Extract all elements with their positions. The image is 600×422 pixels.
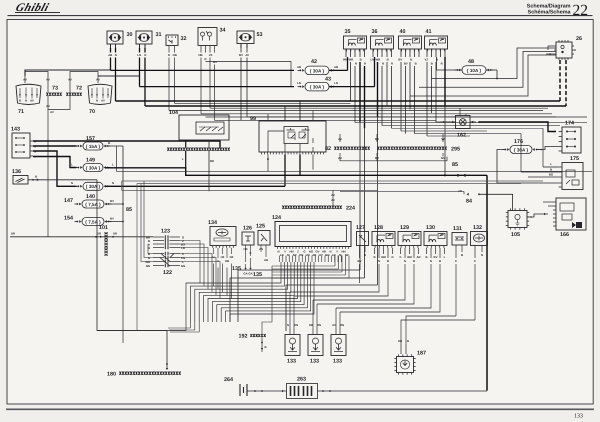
wire horn30 to fuse42 [111,69,295,71]
relay 35 [344,36,367,49]
wire 82 drops [339,134,341,141]
svg-text:VZ: VZ [425,58,429,62]
svg-text:192: 192 [239,334,248,340]
svg-text:HV: HV [319,253,323,257]
svg-text:B: B [387,58,389,62]
svg-text:R: R [364,62,366,66]
svg-text:101: 101 [99,225,108,231]
lamp 133 a [285,335,300,356]
svg-text:166: 166 [560,232,569,238]
svg-text:B: B [439,259,441,263]
svg-text:VZ: VZ [209,53,213,57]
fuse 157 [83,142,103,150]
svg-text:71: 71 [18,109,24,115]
connector 175 [562,163,583,190]
svg-text:AV: AV [30,99,34,103]
relay pin wires 35 [345,49,347,57]
svg-text:AV: AV [331,193,335,197]
wire 136 B [28,179,97,181]
fuse 48 [462,66,486,75]
wire relay drops to fan [238,270,360,322]
Ghibli logo [14,2,51,14]
svg-text:187: 187 [417,351,426,357]
wire 104 pins [185,140,187,148]
svg-text:WR: WR [375,58,380,62]
fuse 43 [305,82,329,91]
wire 128 drops [374,248,376,254]
svg-text:{ 7,5A }: { 7,5A } [85,202,101,207]
wire 180 feed [166,363,168,365]
horn 31 [136,31,152,44]
switch 131 [452,233,467,246]
svg-text:30: 30 [414,37,418,41]
svg-text:C: C [399,255,401,259]
horn 53 [237,31,254,44]
svg-text:N: N [355,62,357,66]
fuse 149 [83,164,103,172]
svg-text:30: 30 [386,37,390,41]
control unit 104 [179,115,229,140]
lamp 133 c [331,335,346,356]
svg-text:B: B [108,141,110,145]
svg-text:143: 143 [11,127,20,133]
wire 71 to 73 arc [25,72,48,93]
svg-text:B: B [387,259,389,263]
svg-text:L: L [112,163,114,167]
strip 72 [66,93,81,96]
svg-text:82: 82 [325,146,331,152]
amplifier 105 [508,211,527,228]
svg-text:147: 147 [64,198,73,204]
svg-text:R: R [204,57,206,61]
svg-text:BN: BN [146,264,150,268]
svg-text:B: B [267,157,269,161]
svg-text:140: 140 [86,194,95,200]
wire fan to bottom left [97,322,186,331]
svg-text:LB: LB [181,246,185,250]
wire 162 right lead thick [470,121,476,123]
strip 82 295 pin stubs [339,139,341,142]
svg-text:LN: LN [334,81,338,85]
svg-text:84: 84 [466,199,472,205]
svg-text:BV: BV [110,217,114,221]
svg-text:L: L [444,255,446,259]
wire 263 out right [318,390,488,392]
svg-text:127: 127 [356,225,365,231]
svg-text:72: 72 [76,86,82,92]
svg-text:NB: NB [173,53,177,57]
svg-text:AV: AV [46,78,50,82]
svg-text:135: 135 [232,266,241,272]
svg-text:R: R [168,53,170,57]
wire 73 to 72 lower link [48,96,70,110]
sender 126 [242,232,254,245]
svg-text:GA: GA [248,272,252,276]
bus thin band [169,110,543,112]
wire 123 feeds [152,236,154,238]
svg-text:B: B [415,62,417,66]
fuse 176 [510,146,532,154]
wire 73 long drop [47,110,49,237]
svg-text:174: 174 [565,121,574,127]
svg-text:124: 124 [272,215,281,221]
wire 143 leads thick [33,145,77,147]
wire feeders to 26 [432,48,557,79]
svg-text:R: R [391,255,393,259]
svg-text:224: 224 [346,206,355,212]
svg-text:DR: DR [113,232,117,236]
wire 26 drops dashed thick [559,60,561,101]
relay pin wires 41 [426,49,428,57]
svg-text:AV: AV [50,110,54,114]
radio 166 [556,198,586,230]
header rule [8,15,593,17]
relay drop wires long [350,62,352,101]
svg-text:C: C [249,251,251,255]
svg-text:R: R [144,53,146,57]
wire 34 R leg to 43 [206,62,292,87]
svg-text:R: R [391,62,393,66]
wire 123 down pair [140,184,142,219]
svg-text:Schéma/Schema: Schéma/Schema [528,9,572,15]
svg-text:85: 85 [452,162,458,168]
strip 73 [46,93,61,96]
svg-text:133: 133 [574,414,583,420]
wire fan verticals to 133 [289,292,291,328]
svg-text:GN: GN [441,156,445,160]
svg-text:130: 130 [426,225,435,231]
svg-text:N: N [430,259,432,263]
relay 36 [371,36,394,49]
wire 175 leads [543,166,559,168]
buzzer 187 [397,357,414,373]
svg-text:GM: GM [407,255,412,259]
strip 295 [377,147,446,150]
svg-text:42: 42 [311,59,317,65]
wire 32 legs [168,46,170,53]
wire 136 drop long [97,180,167,369]
svg-text:GM: GM [381,255,386,259]
wire 192 drop [261,338,263,353]
svg-text:41: 41 [426,29,432,35]
svg-text:122: 122 [163,270,172,276]
strip 101 [105,232,108,255]
node 85 left [122,146,124,222]
wire 133b pins [312,328,314,335]
wire 162 left lead [440,121,456,123]
wire 26 side leads [548,46,554,50]
svg-text:HB: HB [398,339,402,343]
relay 130 [424,232,447,246]
svg-text:105: 105 [511,232,520,238]
svg-text:263: 263 [297,377,306,383]
svg-text:AB: AB [334,65,338,69]
svg-text:73: 73 [52,86,58,92]
switch 32 [166,35,178,46]
svg-text:B: B [264,345,266,349]
sender 125 [258,231,270,246]
wire 122/123 right leads [180,241,200,284]
svg-text:154: 154 [64,216,73,222]
flasher 127 [357,232,369,246]
svg-text:32: 32 [181,36,187,42]
svg-text:U: U [212,255,214,259]
wire 99 top feeds [267,114,269,121]
svg-text:34: 34 [220,28,226,34]
comb under 134 [213,246,234,248]
wire 53 legs [240,48,242,53]
svg-text:Y: Y [284,250,286,254]
relay pin wires 40 [400,49,402,57]
bus thick N lower [98,75,140,77]
svg-text:AV: AV [332,323,336,327]
svg-text:85: 85 [126,207,132,213]
wire 132 drops [474,246,476,259]
wire 101 DR horizontal [10,236,153,238]
wire 166 feeds [543,201,553,203]
svg-text:AB: AB [312,253,316,257]
wire 34 legs [200,46,202,53]
strip 224 [282,206,341,209]
svg-text:175: 175 [570,156,579,162]
svg-text:B: B [550,168,552,172]
relay pin wires 36 [372,49,374,57]
svg-text:36: 36 [372,29,378,35]
svg-text:129: 129 [400,225,409,231]
strip under 104 [167,148,229,151]
wire 31 legs [139,48,141,53]
svg-text:{ 7,5A }: { 7,5A } [85,219,101,224]
relay 40 [399,36,422,49]
svg-text:R: R [441,62,443,66]
svg-text:22: 22 [573,2,589,19]
svg-text:{ 30A }: { 30A } [310,68,325,73]
svg-text:{ 30A }: { 30A } [86,165,101,170]
svg-text:35: 35 [345,29,351,35]
svg-text:RN: RN [340,323,344,327]
footer heavy rule [6,408,594,410]
svg-text:BV: BV [213,60,217,64]
svg-text:30: 30 [127,32,133,38]
wire 131 drops [455,245,457,258]
svg-text:AV: AV [23,78,27,82]
wire 99 pins down [267,154,269,171]
svg-text:N: N [287,323,289,327]
svg-text:GN: GN [181,264,185,268]
svg-text:30: 30 [440,37,444,41]
wire 162 up feeds [459,108,461,115]
svg-text:132: 132 [473,225,482,231]
bus thick N upper [25,70,111,76]
wire thick main drop x487 [486,175,488,390]
lamp 133 b [308,335,323,356]
svg-text:LN: LN [137,53,141,57]
svg-text:133: 133 [310,359,319,365]
svg-text:AV: AV [68,78,72,82]
svg-text:L: L [182,157,184,161]
svg-text:BV: BV [398,58,402,62]
svg-text:GN: GN [325,253,329,257]
svg-text:VN: VN [306,253,310,257]
svg-text:31: 31 [156,32,162,38]
svg-text:N: N [382,62,384,66]
svg-text:104: 104 [169,110,178,116]
comb under 99 [261,152,323,154]
svg-text:B: B [35,175,37,179]
svg-text:LR: LR [280,253,284,257]
connector 174 [562,127,581,153]
svg-text:N: N [25,99,27,103]
svg-text:AB: AB [108,53,112,57]
svg-text:136: 136 [12,169,21,175]
relay 128 [372,232,395,246]
svg-text:B: B [19,99,21,103]
svg-text:128: 128 [374,225,383,231]
wire mid thin band [116,170,592,172]
wire 126 drops [245,245,247,262]
svg-text:123: 123 [161,229,170,235]
svg-text:{ 30A }: { 30A } [86,184,101,189]
svg-text:B: B [413,259,415,263]
fuse 42 [305,66,329,75]
svg-text:B: B [364,253,366,257]
svg-text:BR: BR [210,159,214,163]
svg-text:L: L [550,162,552,166]
svg-text:BV: BV [358,259,362,263]
svg-text:B: B [425,255,427,259]
svg-text:180: 180 [107,372,116,378]
svg-text:AV: AV [245,53,249,57]
lighter 132 [471,232,488,246]
svg-text:N: N [378,259,380,263]
svg-text:B: B [431,62,433,66]
svg-text:AV: AV [101,99,105,103]
connector 26 [556,42,572,58]
wire 124 drops [279,256,281,263]
wire 264 to 263 [247,390,287,392]
svg-text:30: 30 [359,37,363,41]
svg-text:C: C [474,259,476,263]
wire 30 legs [110,48,112,53]
svg-text:70: 70 [89,109,95,115]
wire 157 out [106,145,124,147]
relay 41 [425,36,448,49]
svg-text:DR: DR [11,232,15,236]
svg-text:ZN: ZN [259,247,263,251]
svg-text:B: B [360,58,362,62]
switch unit 34 [198,28,217,46]
comb under 124 [278,247,349,249]
svg-text:LN: LN [297,81,301,85]
svg-text:N: N [404,259,406,263]
svg-text:HB: HB [225,259,229,263]
svg-text:Y: Y [336,250,338,254]
svg-text:{ 10A }: { 10A } [467,68,482,73]
wire 124 right drops [334,256,336,267]
svg-text:BV: BV [239,53,243,57]
switch 136 [13,176,28,185]
svg-text:AV: AV [46,104,50,108]
svg-text:AR: AR [416,255,420,259]
fuse 140 [83,182,103,190]
svg-text:AB: AB [297,65,301,69]
control unit 99 [259,121,326,152]
svg-text:B: B [407,339,409,343]
svg-text:N: N [112,181,114,185]
svg-text:NB: NB [198,53,202,57]
svg-text:AV: AV [331,198,335,202]
svg-text:30: 30 [414,233,418,237]
wire 133a pins [289,328,291,335]
svg-text:176: 176 [514,139,523,145]
svg-text:149: 149 [86,158,95,164]
wire 125 drops [260,245,262,252]
svg-text:BV: BV [404,62,408,66]
svg-text:295: 295 [451,147,460,153]
svg-text:WR: WR [348,58,353,62]
svg-text:B: B [373,255,375,259]
svg-text:53: 53 [257,32,263,38]
svg-text:L: L [71,163,73,167]
svg-text:264: 264 [224,377,233,383]
svg-text:BG: BG [549,173,553,177]
wire 147 out [107,203,124,205]
wire 133c pins [335,328,337,335]
wire 122 left leads [148,244,153,254]
svg-text:AB: AB [458,189,462,193]
svg-text:48: 48 [468,59,474,65]
svg-text:NZ: NZ [230,255,234,259]
svg-text:125: 125 [256,224,265,230]
svg-text:CN: CN [299,253,303,257]
svg-text:BV: BV [110,199,114,203]
svg-text:RN: RN [294,323,298,327]
svg-text:30: 30 [388,233,392,237]
svg-text:30: 30 [440,233,444,237]
wire 176 leads [497,150,559,184]
connector 70 [88,84,112,104]
svg-text:131: 131 [453,226,462,232]
svg-text:99: 99 [250,116,256,122]
wire 130 drops [426,248,428,254]
svg-text:133: 133 [287,359,296,365]
wire horn31 to fuse43 [140,86,295,88]
svg-text:{ 30A }: { 30A } [310,85,325,90]
junction 162 [456,116,471,129]
connector 143 [12,133,30,158]
svg-text:HB: HB [309,323,313,327]
svg-text:40: 40 [400,29,406,35]
wire 224 feeds [332,190,334,206]
svg-text:157: 157 [86,136,95,142]
svg-text:LN: LN [370,58,374,62]
relay 129 [398,232,421,246]
wire 105 to 166 [527,214,548,217]
svg-text:26: 26 [576,36,582,42]
fuse 147 [82,200,104,208]
svg-text:N: N [96,99,98,103]
wire 187 feeds [400,344,402,354]
fuse 154 [82,218,104,226]
wire 129 drops [400,248,402,254]
wire 82-295 bottom loop [340,157,447,161]
svg-text:AV: AV [96,78,100,82]
svg-text:N: N [410,58,412,62]
svg-text:162: 162 [457,133,466,139]
instrument cluster 124 [275,222,351,247]
wire 134 drops [213,248,215,254]
svg-text:HB: HB [243,247,247,251]
